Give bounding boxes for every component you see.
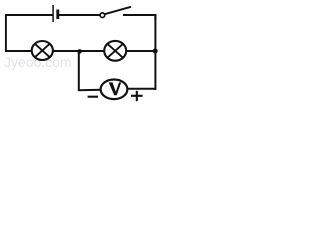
lamp L2 cross stroke 1	[108, 44, 123, 58]
battery GB short thick plate	[56, 10, 59, 20]
wire voltmeter to bottom-right corner	[127, 88, 156, 90]
lamp L1 circle	[32, 41, 53, 60]
lamp L1 cross stroke 2	[35, 44, 50, 57]
lamp L1 cross stroke 1	[35, 44, 50, 57]
battery GB long plate	[52, 5, 54, 22]
switch S lever (open)	[105, 7, 131, 14]
switch S pivot	[100, 13, 105, 18]
wire bottom-left horizontal to voltmeter	[78, 89, 102, 91]
svg-text:Jyeoo.com: Jyeoo.com	[4, 54, 72, 70]
wire middle-left horizontal	[5, 50, 32, 52]
wire branch vertical from node A	[78, 51, 80, 91]
wire left vertical	[5, 14, 7, 52]
wire top-left horizontal	[5, 14, 53, 16]
node B junction dot	[153, 49, 158, 54]
wire node A to lamp L2	[80, 50, 105, 52]
node A junction dot	[77, 49, 82, 54]
lamp L2 cross stroke 2	[108, 44, 123, 58]
wire lamp L2 to node B	[126, 50, 155, 52]
voltmeter V label	[109, 82, 122, 95]
lamp L2 circle	[104, 41, 126, 61]
plus terminal label vertical	[136, 91, 138, 101]
wire switch to top-right corner	[123, 15, 155, 20]
wire right vertical	[154, 14, 156, 90]
wire lamp L1 to node A	[53, 50, 80, 52]
wire battery to switch	[59, 14, 100, 16]
minus terminal label	[88, 96, 98, 98]
voltmeter V circle	[101, 80, 128, 100]
plus terminal label horizontal	[131, 95, 143, 97]
